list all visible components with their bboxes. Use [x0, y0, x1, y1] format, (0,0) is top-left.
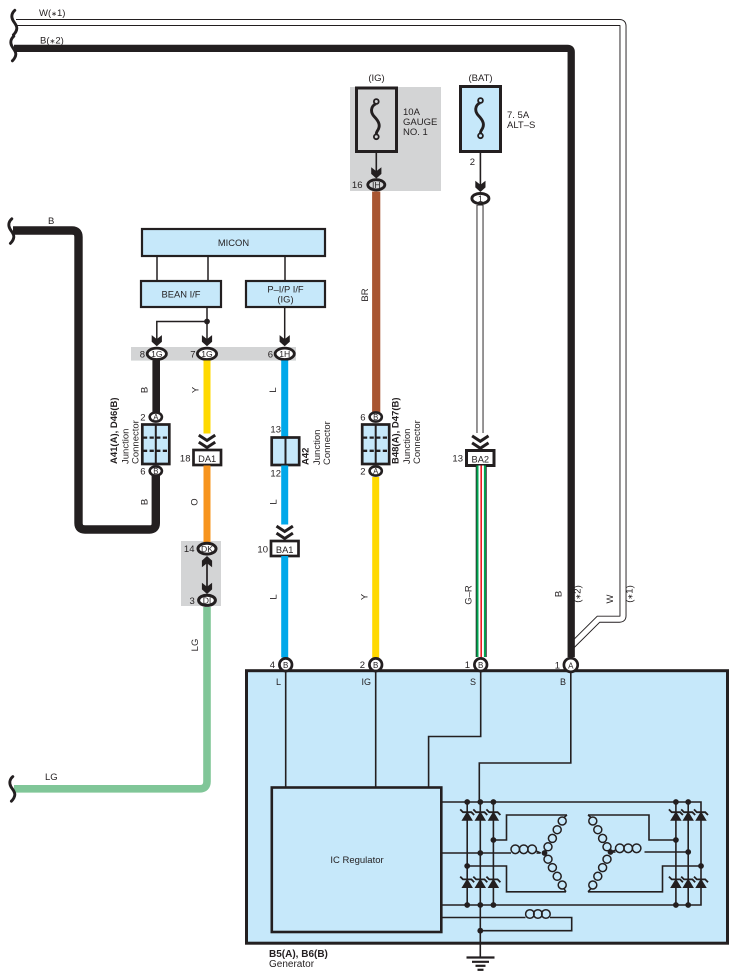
svg-text:18: 18 [180, 454, 191, 465]
svg-text:L: L [268, 387, 279, 392]
wire Y yellow from B48 to generator 2(B) [372, 477, 379, 658]
svg-text:LG: LG [45, 772, 58, 783]
svg-text:B: B [373, 661, 378, 670]
junction dots rectifier buses [464, 799, 470, 805]
wire BR brown from IH to B48 [372, 192, 380, 415]
svg-text:1: 1 [465, 660, 470, 671]
right winding neutral dot [608, 849, 614, 855]
svg-text:13: 13 [452, 454, 463, 465]
terminal 1 B [474, 658, 487, 671]
svg-text:6: 6 [140, 467, 145, 478]
wire break B(*2) [11, 36, 16, 61]
fuse 10A GAUGE NO.1 box [357, 88, 397, 152]
junction dot field [477, 928, 483, 934]
wire S inside [429, 671, 481, 788]
connector 2 A [370, 466, 382, 475]
svg-text:A: A [373, 467, 379, 476]
field inductor coil [526, 910, 551, 919]
terminal 2 B [369, 658, 382, 671]
svg-text:B: B [560, 677, 566, 687]
svg-text:B: B [48, 216, 54, 227]
right winding phase C route [588, 866, 701, 892]
wire B black column from 1G to A41 [152, 361, 160, 415]
fuse 7.5A ALT-S box [461, 87, 501, 152]
connector 2 A [150, 412, 162, 421]
junction connector A42 [272, 438, 300, 466]
connector 3 DI [199, 595, 216, 605]
wire from fuse to IH [375, 152, 377, 173]
connector 10 BA1 [271, 541, 299, 556]
svg-text:DK: DK [201, 544, 213, 554]
svg-text:13: 13 [270, 425, 281, 436]
svg-text:B: B [554, 591, 565, 597]
top bus [441, 802, 701, 905]
terminal 4 B [279, 658, 292, 671]
wire B(*2): thick black from top-left down to generator 1(A) [14, 48, 571, 657]
bottom field circuit with inductor [441, 917, 526, 919]
svg-text:O: O [190, 498, 201, 505]
svg-text:IG: IG [361, 677, 371, 687]
gray block behind 10A GAUGE fuse [350, 87, 441, 191]
svg-text:L: L [269, 594, 280, 599]
wire L blue from A42 to BA1 [281, 466, 288, 525]
svg-text:Connector: Connector [131, 420, 142, 464]
wire LG green from DI to left break [14, 607, 207, 789]
gray block behind DK/DI connectors [181, 541, 221, 606]
wire W(*1): white wire from top-left, down right side, merging into B wire [16, 23, 623, 646]
arrow into connector 1 [475, 181, 485, 192]
chevron into BA2 [472, 436, 488, 448]
coil horizontal [511, 845, 520, 854]
svg-text:Y: Y [191, 386, 202, 393]
svg-text:1: 1 [478, 194, 483, 204]
svg-text:4: 4 [270, 660, 275, 671]
svg-text:Connector: Connector [322, 421, 333, 465]
P-I/P I/F (IG) box [246, 281, 325, 307]
wire from fuse to connector 1 [479, 152, 481, 187]
fuse element (IG) [372, 99, 380, 139]
gray band behind 1G/1G/1H connectors [131, 347, 296, 361]
ground [467, 958, 495, 970]
wire IG inside [375, 671, 377, 788]
svg-text:B48(A), D47(B): B48(A), D47(B) [391, 397, 402, 464]
connector 1 [472, 193, 489, 203]
coil top-left (diagonal) [588, 815, 591, 818]
svg-text:8: 8 [140, 349, 145, 360]
double arrow between DK and DI [206, 560, 208, 592]
connector 6 B [370, 412, 382, 421]
svg-text:A: A [153, 413, 159, 422]
IC Regulator box [272, 788, 442, 933]
wire P-I/P down [284, 307, 286, 340]
wire L blue from BA1 to generator 4(B) [281, 556, 288, 658]
svg-text:6: 6 [268, 349, 273, 360]
left winding neutral dot [542, 850, 548, 856]
svg-text:IH: IH [372, 180, 381, 190]
svg-text:14: 14 [184, 544, 195, 555]
junction dots phase taps [491, 837, 497, 843]
svg-text:S: S [470, 677, 476, 687]
svg-text:6: 6 [360, 413, 365, 424]
svg-text:A: A [568, 662, 574, 671]
svg-text:BA2: BA2 [472, 454, 490, 464]
left winding phase A route [493, 815, 567, 840]
svg-text:(∗1): (∗1) [625, 585, 636, 603]
svg-text:B: B [283, 661, 288, 670]
wire B: thick black loop from left break to junction connector A41 [13, 231, 156, 530]
svg-text:DA1: DA1 [198, 454, 216, 464]
svg-text:LG: LG [190, 639, 201, 652]
svg-text:NO. 1: NO. 1 [403, 127, 428, 138]
svg-text:G–R: G–R [464, 585, 475, 605]
connector 6 B [150, 466, 162, 475]
diodes right rectifier lower row [669, 877, 683, 888]
svg-text:B: B [478, 661, 483, 670]
node branch dot [204, 319, 210, 325]
svg-text:7: 7 [190, 349, 195, 360]
svg-text:Generator: Generator [269, 959, 315, 970]
wire Y yellow from 1G to DA1 [204, 361, 211, 434]
svg-text:3: 3 [190, 596, 195, 607]
coil bottom-right (diagonal) [564, 888, 566, 891]
svg-text:(∗2): (∗2) [573, 585, 584, 603]
diodes left rectifier upper row [460, 809, 474, 820]
connector 13 BA2 [467, 451, 495, 466]
svg-text:(IG): (IG) [277, 294, 293, 305]
svg-text:1G: 1G [201, 349, 213, 359]
wire BEAN I/F down with branch [206, 307, 208, 340]
svg-text:1H: 1H [279, 349, 290, 359]
left stator winding coils [511, 815, 567, 892]
generator box [247, 671, 728, 944]
svg-text:Connector: Connector [412, 420, 423, 464]
svg-text:W: W [605, 594, 616, 603]
svg-text:1G: 1G [151, 349, 163, 359]
svg-text:BA1: BA1 [276, 545, 294, 555]
svg-text:ALT–S: ALT–S [507, 120, 535, 131]
coil bottom-left (diagonal) [588, 888, 591, 891]
chevron into BA1 [277, 526, 293, 538]
wire MICON to P-I/P I/F [284, 256, 286, 281]
svg-text:(IG): (IG) [368, 73, 384, 84]
diodes right rectifier upper row [669, 809, 683, 820]
svg-text:A41(A), D46(B): A41(A), D46(B) [109, 397, 120, 464]
right winding phase B route [645, 851, 689, 853]
wire W: white wire from connector 1 to BA2 [477, 205, 484, 433]
connector 7 1G [197, 348, 216, 359]
right winding phase A route [588, 815, 676, 840]
junction connector B48(A), D47(B) [362, 425, 389, 465]
svg-text:2: 2 [360, 467, 365, 478]
BEAN I/F box [141, 281, 221, 307]
svg-text:B: B [153, 467, 158, 476]
arrow into 6 1H [280, 335, 290, 346]
svg-text:A42: A42 [301, 448, 312, 465]
terminal 1 A [564, 658, 578, 672]
svg-text:IC Regulator: IC Regulator [330, 855, 383, 866]
arrow into 8 1G [152, 335, 162, 346]
svg-text:12: 12 [270, 469, 281, 480]
wire L blue from 1H to A42 [281, 361, 288, 441]
svg-text:B: B [140, 387, 151, 393]
svg-text:B: B [140, 499, 151, 505]
svg-text:1: 1 [555, 661, 560, 672]
connector 14 DK [198, 543, 216, 554]
connector 8 1G [147, 348, 166, 359]
coil horizontal [616, 844, 625, 853]
wire L inside [285, 671, 287, 788]
svg-text:L: L [269, 499, 280, 504]
connector 18 DA1 [194, 450, 222, 465]
svg-text:2: 2 [360, 660, 365, 671]
wire O orange from DA1 to DK [204, 466, 211, 544]
wire break W(*1) [12, 10, 17, 35]
arrow into IH [371, 167, 381, 178]
left winding phase C route [467, 866, 566, 892]
right rectifier verticals [675, 802, 677, 905]
chevron into DA1 [199, 435, 215, 447]
wire break B [9, 219, 14, 244]
svg-text:2: 2 [470, 157, 475, 168]
fuse element (BAT) [476, 98, 484, 138]
wire B inside [479, 671, 571, 802]
MICON box [142, 229, 325, 256]
diodes left rectifier lower row [460, 877, 474, 888]
arrow into 7 1G [202, 335, 212, 346]
left rectifier verticals [466, 802, 468, 905]
svg-text:(BAT): (BAT) [468, 73, 492, 84]
connector 16 IH [368, 180, 385, 190]
wire G-R: green w/ red stripe from BA2 to generator 1(B) [476, 466, 487, 658]
connector 6 1H [275, 348, 294, 359]
svg-text:16: 16 [352, 180, 363, 191]
svg-text:Y: Y [360, 593, 371, 600]
wire MICON to BEAN I/F [156, 256, 158, 281]
coil top-right (diagonal) [564, 815, 567, 818]
svg-text:B: B [373, 413, 378, 422]
generator internals [286, 671, 701, 958]
svg-text:BR: BR [360, 288, 371, 301]
svg-text:DI: DI [203, 595, 212, 605]
svg-text:BEAN I/F: BEAN I/F [161, 289, 200, 300]
right stator winding coils [588, 815, 641, 892]
left winding phase B route / mid bus [441, 852, 511, 854]
svg-text:MICON: MICON [218, 237, 249, 248]
svg-text:L: L [276, 677, 281, 687]
wire break LG [10, 777, 15, 802]
svg-text:10: 10 [257, 545, 268, 556]
junction connector A41(A), D46(B) [142, 425, 169, 465]
